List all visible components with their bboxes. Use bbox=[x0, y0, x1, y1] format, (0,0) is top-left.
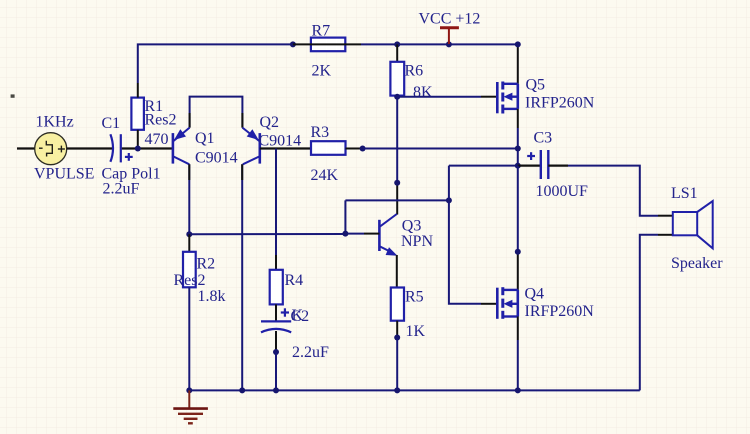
svg-text:2.2uF: 2.2uF bbox=[103, 181, 140, 198]
node rail ground bbox=[186, 387, 192, 393]
node rail Q2 bbox=[239, 387, 245, 393]
svg-text:8K: 8K bbox=[413, 84, 433, 101]
svg-text:1000UF: 1000UF bbox=[536, 183, 589, 200]
wire R3 to Q5 source rail bbox=[363, 148, 518, 150]
svg-text:R2: R2 bbox=[197, 256, 216, 273]
resistor R4 bbox=[270, 270, 303, 305]
mosfet Q4 bbox=[497, 286, 594, 321]
svg-text:R6: R6 bbox=[405, 63, 424, 80]
wire Q5 drain vertical bbox=[517, 44, 519, 83]
capacitor C2 bbox=[261, 304, 329, 361]
wire top rail left bbox=[138, 44, 293, 83]
transistor Q2 bbox=[242, 114, 301, 164]
wire Q5 gate bbox=[397, 96, 496, 98]
svg-text:R3: R3 bbox=[311, 124, 330, 141]
node rail Q4 bbox=[515, 387, 521, 393]
wire C3 to speaker bbox=[568, 166, 673, 216]
wire Q1 to Q3 base horizontal bbox=[189, 233, 345, 235]
svg-text:Q2: Q2 bbox=[260, 114, 280, 131]
svg-text:1.8k: 1.8k bbox=[198, 288, 226, 305]
svg-text:Res2: Res2 bbox=[174, 272, 206, 289]
svg-text:Res2: Res2 bbox=[145, 112, 177, 129]
svg-text:VCC +12: VCC +12 bbox=[419, 11, 481, 28]
node Q3 base bbox=[342, 231, 348, 237]
power port VCC +12 bbox=[419, 11, 481, 45]
wire Q4 source down bbox=[517, 317, 519, 391]
svg-text:Q3: Q3 bbox=[402, 218, 422, 235]
transistor Q3 bbox=[379, 214, 433, 256]
node mid vertical junction bbox=[446, 197, 452, 203]
node top VCC bbox=[446, 41, 452, 47]
node R3 right bbox=[360, 146, 366, 152]
resistor R5 bbox=[391, 288, 426, 341]
resistor R6 bbox=[390, 44, 433, 101]
wire Q2 base to R3 bbox=[260, 147, 311, 149]
wire Q5 source down bbox=[517, 109, 519, 166]
resistor R3 bbox=[311, 124, 363, 184]
svg-text:470: 470 bbox=[145, 131, 169, 148]
wire VPULSE to C1 bbox=[67, 147, 113, 149]
ground bbox=[173, 390, 208, 423]
svg-text:K: K bbox=[292, 307, 304, 324]
wire Q3 base bracket bbox=[345, 200, 379, 233]
svg-text:C1: C1 bbox=[102, 115, 121, 132]
wire Q4 drain vertical bbox=[517, 166, 519, 290]
svg-text:VPULSE: VPULSE bbox=[34, 166, 94, 183]
node R5 bottom bbox=[394, 335, 400, 391]
voltage source VPULSE bbox=[17, 114, 94, 183]
svg-text:LS1: LS1 bbox=[671, 185, 698, 202]
node C1 R1 Q1 junction bbox=[135, 146, 141, 152]
svg-text:C3: C3 bbox=[534, 130, 553, 147]
svg-text:R5: R5 bbox=[405, 289, 424, 306]
wire Q3 emitter to R5 bbox=[396, 255, 398, 288]
resistor R2 bbox=[174, 234, 226, 390]
speaker LS1 bbox=[671, 185, 723, 272]
capacitor C1 bbox=[102, 115, 161, 198]
resistor R7 bbox=[293, 23, 361, 80]
svg-text:IRFP260N: IRFP260N bbox=[525, 95, 595, 112]
node Q3 collector wire bbox=[394, 180, 400, 186]
node top R7 left bbox=[290, 41, 296, 47]
wire over Q3 horizontal bbox=[345, 199, 449, 201]
node Q1 collector R2 bbox=[186, 231, 192, 237]
wire Q2 emitter down bbox=[241, 164, 243, 390]
svg-text:Q4: Q4 bbox=[525, 286, 545, 303]
mosfet Q5 bbox=[497, 77, 594, 114]
wire mid vertical to Q4 gate bbox=[449, 166, 496, 304]
wire C1 to Q1 base bbox=[122, 147, 173, 149]
wire R6 to Q3 collector vertical bbox=[396, 96, 398, 183]
svg-text:C9014: C9014 bbox=[259, 133, 302, 150]
node C3 junction bbox=[515, 163, 521, 169]
node rail C2 bbox=[273, 387, 279, 393]
node Q5 source R3 rail bbox=[515, 146, 521, 152]
wire R4 branch vertical bbox=[255, 149, 276, 270]
svg-text:1KHz: 1KHz bbox=[36, 114, 74, 131]
svg-text:Speaker: Speaker bbox=[671, 255, 723, 272]
capacitor C3 bbox=[518, 130, 588, 201]
svg-text:IRFP260N: IRFP260N bbox=[525, 303, 595, 320]
transistor Q1 bbox=[173, 128, 238, 167]
svg-text:1K: 1K bbox=[406, 323, 426, 340]
wire speaker bottom lead bbox=[640, 235, 673, 391]
svg-text:24K: 24K bbox=[311, 167, 339, 184]
wire top rail right bbox=[361, 43, 518, 45]
node C2 bottom bbox=[273, 349, 279, 390]
node top R6 bbox=[394, 41, 400, 47]
wire emitter bracket Q1 Q2 bbox=[190, 97, 243, 128]
wire mid top horizontal bbox=[449, 165, 518, 167]
svg-text:2K: 2K bbox=[312, 63, 332, 80]
wire Q3 collector pin bbox=[396, 183, 398, 215]
node rail R5 bbox=[394, 387, 400, 393]
node top right corner bbox=[515, 41, 521, 47]
wire bottom rail bbox=[189, 389, 640, 391]
svg-text:R4: R4 bbox=[285, 272, 304, 289]
svg-text:R7: R7 bbox=[312, 23, 331, 40]
svg-text:Q5: Q5 bbox=[526, 77, 546, 94]
resistor R1 bbox=[131, 83, 176, 149]
svg-text:2.2uF: 2.2uF bbox=[292, 344, 329, 361]
svg-text:Q1: Q1 bbox=[195, 130, 215, 147]
svg-text:NPN: NPN bbox=[401, 233, 433, 250]
node Q4 drain bbox=[515, 249, 521, 255]
wire Q1 collector down bbox=[188, 164, 190, 234]
stray mark left edge bbox=[11, 94, 15, 97]
node R6 bottom bbox=[394, 94, 400, 100]
svg-text:C9014: C9014 bbox=[195, 150, 238, 167]
